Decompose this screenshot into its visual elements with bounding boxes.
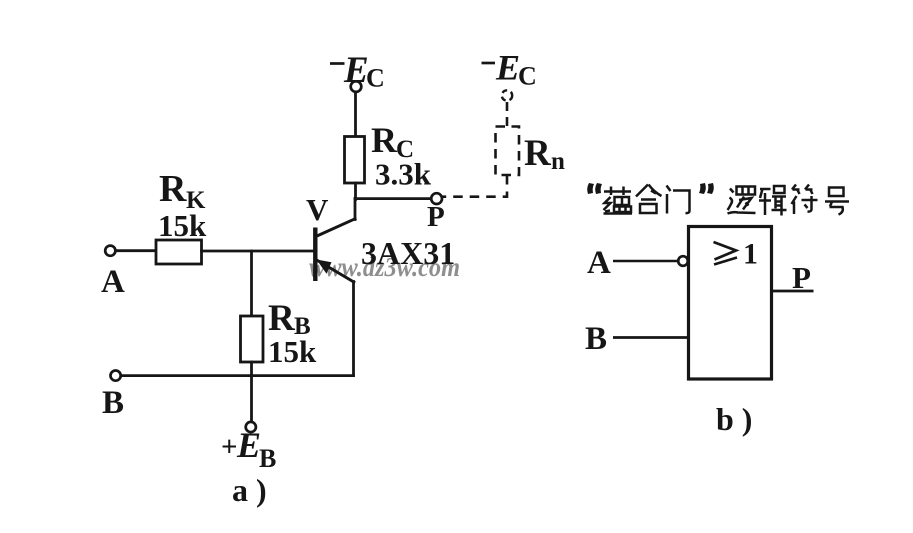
- svg-text:b ): b ): [716, 401, 752, 437]
- svg-text:R: R: [268, 298, 296, 339]
- svg-text:A: A: [101, 264, 125, 300]
- svg-text:E: E: [236, 425, 261, 465]
- svg-text:C: C: [366, 64, 385, 93]
- svg-text:A: A: [587, 245, 611, 281]
- svg-text:15k: 15k: [268, 334, 317, 369]
- svg-text:E: E: [343, 50, 369, 91]
- svg-text:V: V: [306, 192, 329, 227]
- svg-text:E: E: [495, 48, 520, 88]
- svg-text:R: R: [371, 120, 398, 160]
- svg-text:1: 1: [743, 238, 758, 271]
- svg-text:3AX31: 3AX31: [361, 235, 455, 271]
- svg-text:n: n: [551, 148, 565, 175]
- svg-text:15k: 15k: [158, 208, 207, 243]
- svg-text:R: R: [524, 133, 552, 174]
- svg-text:B: B: [259, 444, 276, 473]
- svg-text:+: +: [221, 431, 238, 463]
- svg-text:B: B: [102, 385, 124, 421]
- svg-text:P: P: [792, 260, 811, 295]
- svg-text:3.3k: 3.3k: [375, 157, 432, 192]
- svg-text:R: R: [159, 168, 187, 210]
- svg-text:B: B: [585, 321, 607, 357]
- svg-text:C: C: [518, 62, 537, 91]
- svg-text:P: P: [427, 201, 445, 233]
- svg-text:a ): a ): [232, 472, 267, 508]
